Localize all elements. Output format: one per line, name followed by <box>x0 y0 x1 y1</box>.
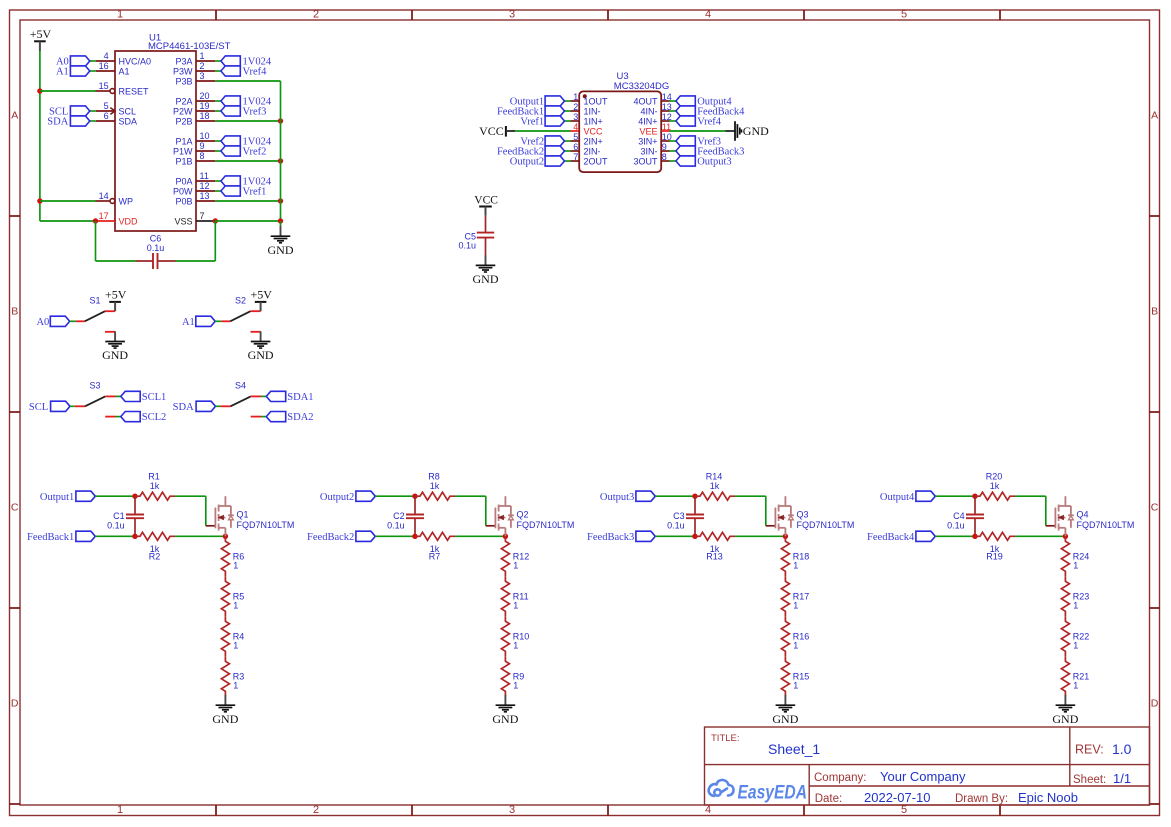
svg-text:1OUT: 1OUT <box>584 96 609 106</box>
svg-text:3: 3 <box>509 804 515 816</box>
svg-text:1: 1 <box>793 601 798 611</box>
svg-text:12: 12 <box>200 181 210 191</box>
svg-text:1: 1 <box>233 681 238 691</box>
svg-text:3IN+: 3IN+ <box>638 136 657 146</box>
svg-text:P2B: P2B <box>175 116 192 126</box>
svg-text:Q4: Q4 <box>1077 510 1089 520</box>
svg-text:Q2: Q2 <box>517 510 529 520</box>
svg-text:P3B: P3B <box>175 76 192 86</box>
svg-text:RESET: RESET <box>119 86 150 96</box>
svg-text:Vref1: Vref1 <box>520 117 544 128</box>
svg-text:FeedBack1: FeedBack1 <box>27 532 74 543</box>
svg-text:1/1: 1/1 <box>1113 771 1131 786</box>
svg-text:GND: GND <box>743 124 769 138</box>
svg-text:8: 8 <box>200 151 205 161</box>
svg-text:WP: WP <box>119 196 134 206</box>
svg-text:REV:: REV: <box>1075 743 1104 757</box>
svg-text:MCP4461-103E/ST: MCP4461-103E/ST <box>148 41 231 52</box>
svg-text:2022-07-10: 2022-07-10 <box>864 790 931 805</box>
svg-text:6: 6 <box>104 111 109 121</box>
svg-text:A: A <box>11 110 18 122</box>
svg-text:FQD7N10LTM: FQD7N10LTM <box>797 520 855 530</box>
svg-text:5: 5 <box>573 132 578 142</box>
svg-text:9: 9 <box>200 141 205 151</box>
svg-text:0.1u: 0.1u <box>147 243 165 253</box>
svg-text:P0W: P0W <box>173 186 193 196</box>
svg-text:1: 1 <box>233 561 238 571</box>
svg-text:4: 4 <box>104 51 109 61</box>
svg-text:S3: S3 <box>90 381 101 391</box>
svg-text:FQD7N10LTM: FQD7N10LTM <box>1077 520 1135 530</box>
svg-text:SCL: SCL <box>119 106 137 116</box>
svg-text:A1: A1 <box>182 317 195 328</box>
svg-text:8: 8 <box>662 152 667 162</box>
svg-text:7: 7 <box>200 211 205 221</box>
svg-text:1: 1 <box>117 804 123 816</box>
svg-text:GND: GND <box>1052 712 1078 726</box>
svg-text:Vref1: Vref1 <box>243 187 267 198</box>
svg-text:Output2: Output2 <box>510 157 544 168</box>
svg-text:11: 11 <box>200 171 209 181</box>
svg-text:17: 17 <box>99 211 109 221</box>
svg-text:4: 4 <box>705 9 711 21</box>
svg-text:P0B: P0B <box>175 196 192 206</box>
svg-text:C: C <box>11 502 19 514</box>
svg-text:P3W: P3W <box>173 66 193 76</box>
svg-text:2: 2 <box>313 804 319 816</box>
svg-text:4IN+: 4IN+ <box>638 116 657 126</box>
svg-text:0.1u: 0.1u <box>947 521 965 531</box>
svg-text:R7: R7 <box>429 552 441 562</box>
svg-text:19: 19 <box>200 101 210 111</box>
svg-text:VCC: VCC <box>479 124 504 138</box>
svg-text:0.1u: 0.1u <box>458 240 476 250</box>
svg-text:FeedBack4: FeedBack4 <box>867 532 915 543</box>
svg-text:R14: R14 <box>706 471 723 481</box>
svg-text:+5V: +5V <box>105 288 127 302</box>
svg-text:5: 5 <box>901 9 907 21</box>
svg-text:EasyEDA: EasyEDA <box>738 783 808 804</box>
svg-text:S2: S2 <box>235 295 246 305</box>
svg-text:1k: 1k <box>430 481 440 491</box>
svg-text:4IN-: 4IN- <box>640 106 657 116</box>
svg-text:SDA2: SDA2 <box>287 412 313 423</box>
svg-text:Output3: Output3 <box>600 492 634 503</box>
svg-text:SDA: SDA <box>119 116 138 126</box>
svg-text:1: 1 <box>1073 681 1078 691</box>
svg-text:1k: 1k <box>990 481 1000 491</box>
svg-text:VCC: VCC <box>584 126 604 136</box>
svg-text:13: 13 <box>200 191 210 201</box>
svg-text:Vref2: Vref2 <box>243 147 267 158</box>
svg-text:R20: R20 <box>986 471 1003 481</box>
svg-text:A1: A1 <box>119 66 130 76</box>
svg-text:SCL1: SCL1 <box>142 392 167 403</box>
svg-text:TITLE:: TITLE: <box>711 733 740 744</box>
svg-text:VSS: VSS <box>174 216 192 226</box>
svg-text:1: 1 <box>233 601 238 611</box>
svg-text:3: 3 <box>573 112 578 122</box>
svg-text:3: 3 <box>200 71 205 81</box>
svg-text:15: 15 <box>99 81 109 91</box>
svg-text:FeedBack2: FeedBack2 <box>307 532 354 543</box>
svg-text:Company:: Company: <box>814 772 866 784</box>
svg-text:HVC/A0: HVC/A0 <box>119 56 152 66</box>
svg-text:3IN-: 3IN- <box>640 146 657 156</box>
svg-text:3: 3 <box>509 9 515 21</box>
svg-text:0.1u: 0.1u <box>107 521 125 531</box>
svg-text:Output1: Output1 <box>40 492 74 503</box>
svg-text:2IN+: 2IN+ <box>584 136 603 146</box>
svg-text:B: B <box>1151 306 1158 318</box>
svg-text:1: 1 <box>1073 561 1078 571</box>
svg-text:GND: GND <box>268 243 294 257</box>
svg-text:Your Company: Your Company <box>880 769 966 784</box>
svg-text:GND: GND <box>212 712 238 726</box>
svg-text:VDD: VDD <box>119 216 139 226</box>
svg-text:P3A: P3A <box>175 56 192 66</box>
svg-text:R8: R8 <box>428 471 440 481</box>
svg-text:VCC: VCC <box>474 194 498 206</box>
svg-text:Epic Noob: Epic Noob <box>1018 790 1078 805</box>
svg-text:1k: 1k <box>150 481 160 491</box>
svg-text:SCL: SCL <box>29 402 48 413</box>
svg-text:2: 2 <box>200 61 205 71</box>
svg-text:2IN-: 2IN- <box>584 146 601 156</box>
svg-text:R13: R13 <box>706 552 723 562</box>
svg-text:0.1u: 0.1u <box>667 521 685 531</box>
svg-text:1: 1 <box>1073 641 1078 651</box>
svg-text:MC33204DG: MC33204DG <box>614 81 669 92</box>
svg-text:+5V: +5V <box>30 27 52 41</box>
svg-text:1: 1 <box>513 681 518 691</box>
svg-text:Vref4: Vref4 <box>243 67 268 78</box>
svg-text:16: 16 <box>99 61 109 71</box>
svg-text:18: 18 <box>200 111 210 121</box>
svg-text:+5V: +5V <box>250 288 272 302</box>
svg-text:SDA: SDA <box>173 402 194 413</box>
svg-text:P1B: P1B <box>175 156 192 166</box>
svg-text:FQD7N10LTM: FQD7N10LTM <box>237 520 295 530</box>
svg-text:Date:: Date: <box>815 793 843 805</box>
svg-text:Q1: Q1 <box>237 510 249 520</box>
svg-text:1: 1 <box>573 92 578 102</box>
svg-text:1: 1 <box>513 601 518 611</box>
svg-text:1: 1 <box>513 561 518 571</box>
svg-text:SDA: SDA <box>47 117 68 128</box>
svg-text:5: 5 <box>104 101 109 111</box>
svg-text:1: 1 <box>117 9 123 21</box>
svg-text:D: D <box>1151 698 1159 710</box>
svg-text:B: B <box>11 306 18 318</box>
svg-text:P0A: P0A <box>175 176 192 186</box>
svg-text:S4: S4 <box>235 381 246 391</box>
svg-text:1: 1 <box>513 641 518 651</box>
svg-text:4OUT: 4OUT <box>633 96 658 106</box>
svg-text:R19: R19 <box>986 552 1003 562</box>
svg-text:1IN-: 1IN- <box>584 106 601 116</box>
svg-text:Output3: Output3 <box>697 157 731 168</box>
svg-text:3OUT: 3OUT <box>633 156 658 166</box>
svg-text:Q3: Q3 <box>797 510 809 520</box>
svg-text:1: 1 <box>1073 601 1078 611</box>
svg-text:R2: R2 <box>149 552 161 562</box>
svg-text:Vref3: Vref3 <box>243 107 267 118</box>
svg-text:Drawn By:: Drawn By: <box>955 793 1008 805</box>
svg-text:4: 4 <box>573 122 578 132</box>
svg-text:GND: GND <box>248 348 274 362</box>
svg-text:Output2: Output2 <box>320 492 354 503</box>
svg-text:6: 6 <box>573 142 578 152</box>
svg-text:1: 1 <box>793 561 798 571</box>
svg-text:0.1u: 0.1u <box>387 521 405 531</box>
svg-text:Sheet:: Sheet: <box>1073 774 1106 786</box>
svg-text:1: 1 <box>200 51 205 61</box>
svg-text:R1: R1 <box>148 471 160 481</box>
svg-text:C: C <box>1151 502 1159 514</box>
svg-text:1IN+: 1IN+ <box>584 116 603 126</box>
svg-text:Sheet_1: Sheet_1 <box>768 741 820 757</box>
svg-text:1: 1 <box>793 641 798 651</box>
svg-text:GND: GND <box>492 712 518 726</box>
svg-text:P1W: P1W <box>173 146 193 156</box>
svg-text:2: 2 <box>313 9 319 21</box>
svg-text:2OUT: 2OUT <box>584 156 609 166</box>
svg-text:GND: GND <box>473 272 499 286</box>
svg-text:GND: GND <box>772 712 798 726</box>
svg-text:7: 7 <box>573 152 578 162</box>
svg-text:P2W: P2W <box>173 106 193 116</box>
svg-text:VEE: VEE <box>639 126 657 136</box>
svg-text:A: A <box>1151 110 1158 122</box>
svg-text:SCL2: SCL2 <box>142 412 167 423</box>
svg-text:SDA1: SDA1 <box>287 392 313 403</box>
svg-text:1: 1 <box>793 681 798 691</box>
svg-text:S1: S1 <box>90 295 101 305</box>
svg-text:Output4: Output4 <box>880 492 915 503</box>
svg-text:20: 20 <box>200 91 210 101</box>
svg-text:A1: A1 <box>56 67 69 78</box>
svg-text:GND: GND <box>102 348 128 362</box>
svg-text:10: 10 <box>200 131 210 141</box>
svg-text:Vref4: Vref4 <box>697 117 722 128</box>
svg-text:D: D <box>11 698 19 710</box>
svg-text:FQD7N10LTM: FQD7N10LTM <box>517 520 575 530</box>
svg-text:FeedBack3: FeedBack3 <box>587 532 634 543</box>
svg-text:2: 2 <box>573 102 578 112</box>
svg-text:1.0: 1.0 <box>1112 741 1132 757</box>
svg-text:P1A: P1A <box>175 136 192 146</box>
svg-text:1k: 1k <box>710 481 720 491</box>
svg-text:P2A: P2A <box>175 96 192 106</box>
svg-text:A0: A0 <box>36 317 49 328</box>
svg-text:14: 14 <box>99 191 109 201</box>
svg-text:1: 1 <box>233 641 238 651</box>
svg-text:9: 9 <box>662 142 667 152</box>
